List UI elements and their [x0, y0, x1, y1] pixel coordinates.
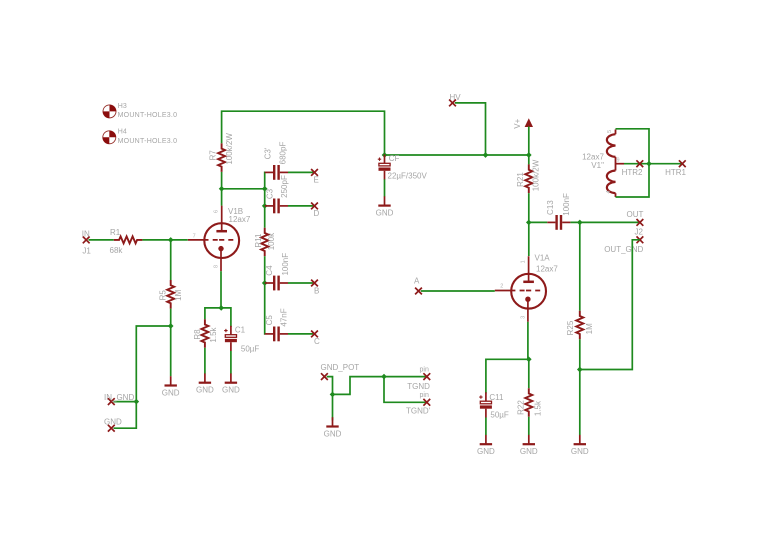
node grid V1B — [168, 237, 174, 243]
wire HV to rail — [455, 103, 486, 155]
ground under R25 — [571, 435, 589, 456]
wire C13 to OUT — [570, 221, 640, 223]
svg-text:H3: H3 — [118, 103, 127, 110]
wire C4 to B — [288, 282, 315, 284]
pin OUT J2 — [627, 210, 644, 236]
svg-text:8: 8 — [214, 265, 220, 268]
node GND_POT — [330, 392, 336, 398]
wire cathode to C1 — [221, 308, 231, 327]
svg-text:100k/2W: 100k/2W — [225, 133, 234, 165]
pin IN_GND — [104, 393, 134, 405]
svg-text:100nF: 100nF — [281, 253, 290, 276]
svg-text:R11: R11 — [254, 233, 263, 248]
svg-text:HTR1: HTR1 — [665, 168, 686, 177]
svg-text:TGND: TGND — [407, 382, 430, 391]
capacitor C5 47nF — [265, 308, 289, 341]
svg-text:MOUNT-HOLE3.0: MOUNT-HOLE3.0 — [118, 112, 178, 119]
svg-text:50µF: 50µF — [241, 345, 260, 354]
svg-text:R25: R25 — [566, 320, 575, 335]
wire node to R7 — [221, 172, 223, 189]
wire R25 branch — [579, 222, 581, 310]
svg-text:V1": V1" — [591, 161, 604, 170]
svg-text:C11: C11 — [489, 393, 504, 402]
svg-text:680pF: 680pF — [278, 142, 287, 165]
svg-text:HV: HV — [450, 93, 462, 102]
capacitor C4 100nF — [265, 253, 290, 291]
wire V1B plate to node — [221, 189, 223, 206]
wire CF to ground — [384, 179, 386, 196]
node plate V1A — [526, 220, 532, 226]
ground under GND_POT — [324, 417, 342, 438]
svg-text:12ax7: 12ax7 — [536, 264, 558, 273]
svg-text:C4: C4 — [265, 265, 274, 276]
node plate V1B — [219, 186, 225, 192]
capacitor C13 100nF — [546, 193, 571, 230]
node CF tap — [382, 152, 388, 158]
node R5 bottom — [168, 323, 174, 329]
svg-text:100nF: 100nF — [562, 193, 571, 216]
svg-text:OUT: OUT — [627, 210, 644, 219]
svg-text:D: D — [314, 209, 320, 218]
svg-text:pin: pin — [420, 367, 429, 374]
wire C5 to C — [288, 333, 315, 335]
node OUT tap — [577, 220, 583, 226]
capacitor CF 22uF/350V — [378, 154, 428, 180]
svg-text:B: B — [314, 286, 319, 295]
pin HTR2 — [622, 160, 644, 177]
svg-text:1.5k: 1.5k — [209, 326, 218, 342]
pin TGND — [407, 367, 430, 391]
svg-text:R7: R7 — [208, 150, 217, 161]
node heater join — [646, 161, 652, 167]
wire C3 to D — [288, 205, 315, 207]
wire R1 to grid node — [142, 239, 170, 241]
wire column lower — [264, 256, 266, 334]
svg-text:GND: GND — [104, 417, 122, 426]
svg-text:C5: C5 — [265, 315, 274, 326]
svg-text:C1: C1 — [235, 326, 246, 335]
pin GND_POT — [321, 363, 360, 380]
svg-text:4: 4 — [606, 190, 612, 193]
wire C3' to E — [288, 171, 315, 173]
svg-text:5: 5 — [607, 130, 613, 133]
svg-text:C13: C13 — [546, 200, 555, 215]
wire R5 to ground node — [170, 309, 172, 377]
wire heater loop — [616, 129, 650, 197]
pin C — [311, 331, 320, 346]
wire R25 to ground — [579, 339, 581, 435]
wire node down to R5 — [170, 240, 172, 280]
ground under R5 — [162, 376, 180, 397]
svg-text:100k/2W: 100k/2W — [531, 159, 540, 191]
node cathode V1A — [526, 356, 532, 362]
svg-text:100k: 100k — [267, 232, 276, 250]
wire OUT_GND down — [580, 240, 640, 370]
capacitor C3' 680pF — [263, 142, 288, 180]
ground under CF — [376, 196, 394, 217]
wire A to V1A grid — [421, 290, 495, 292]
capacitor C3 250pF — [265, 175, 289, 213]
wire main HT rail — [385, 154, 529, 156]
svg-text:47nF: 47nF — [280, 308, 289, 326]
svg-text:R1: R1 — [110, 228, 121, 237]
svg-text:1: 1 — [520, 260, 526, 263]
svg-text:9: 9 — [617, 158, 620, 164]
svg-text:C: C — [314, 337, 320, 346]
svg-text:HTR2: HTR2 — [622, 168, 643, 177]
svg-text:V+: V+ — [513, 118, 522, 128]
op amp: triode V1A — [495, 253, 559, 322]
pin TGND' — [406, 392, 431, 415]
node cathode V1B — [218, 305, 224, 311]
wire R8 to ground — [204, 348, 206, 374]
resistor R25 — [566, 311, 594, 340]
node HV tap — [483, 152, 489, 158]
pin OUT_GND — [604, 236, 643, 254]
pin D — [311, 203, 319, 218]
wire cathode to R22 — [528, 359, 530, 388]
mount hole H3 — [103, 103, 177, 119]
svg-text:3: 3 — [520, 316, 526, 319]
resistor R22 — [516, 388, 542, 417]
ground under R22 — [520, 435, 538, 456]
wire cathode to C11 — [486, 359, 529, 393]
svg-text:IN: IN — [82, 229, 90, 238]
svg-text:1M: 1M — [585, 323, 594, 334]
wire R7 top rail — [222, 111, 385, 155]
svg-text:R8: R8 — [193, 329, 202, 340]
capacitor C1 50uF — [224, 326, 259, 354]
svg-text:1M: 1M — [174, 289, 183, 300]
wire column upper — [264, 172, 266, 227]
svg-text:12ax7: 12ax7 — [229, 215, 251, 224]
node C3 tap — [262, 203, 268, 209]
wire C1 to ground — [230, 351, 232, 374]
ground under C1 — [222, 373, 240, 394]
svg-text:CF: CF — [389, 154, 400, 163]
pin B — [311, 280, 319, 296]
svg-text:C3: C3 — [265, 188, 274, 199]
svg-text:pin: pin — [420, 392, 429, 399]
resistor R7 — [208, 133, 234, 172]
svg-text:TGND': TGND' — [406, 407, 431, 416]
svg-text:J2: J2 — [635, 227, 644, 236]
resistor R21 — [516, 159, 540, 193]
svg-text:E: E — [314, 175, 319, 184]
op amp: triode V1B — [188, 206, 251, 272]
wire R21 to plate node — [528, 193, 530, 222]
svg-text:1.5k: 1.5k — [534, 400, 543, 416]
svg-text:22µF/350V: 22µF/350V — [388, 171, 428, 180]
svg-text:R22: R22 — [516, 400, 525, 415]
svg-text:250pF: 250pF — [280, 175, 289, 198]
svg-text:V1A: V1A — [535, 253, 551, 262]
svg-text:2: 2 — [500, 284, 503, 290]
pin E — [311, 169, 319, 184]
svg-text:J1: J1 — [82, 247, 91, 256]
wire rail to R21 — [528, 155, 530, 164]
pin HV — [449, 93, 461, 106]
wire GND_POT net — [327, 377, 427, 421]
svg-text:MOUNT-HOLE3.0: MOUNT-HOLE3.0 — [118, 138, 178, 145]
svg-text:R21: R21 — [516, 172, 525, 187]
wire node to V1A plate — [528, 222, 530, 256]
svg-text:50µF: 50µF — [490, 411, 509, 420]
wire R22 to ground — [528, 417, 530, 435]
supply V+ — [513, 118, 532, 155]
wire plate node to coupling column — [222, 188, 265, 190]
wire V1A cathode — [527, 322, 529, 360]
resistor R11 — [254, 228, 276, 257]
resistor R8 — [193, 319, 218, 348]
wire to IN_GND — [114, 326, 171, 428]
wire IN to R1 — [89, 239, 114, 241]
mount hole H4 — [103, 129, 178, 145]
wire node to V1B pin 7 — [171, 239, 188, 241]
wire C11 to ground — [485, 418, 487, 436]
pin A — [414, 277, 422, 295]
svg-text:C3': C3' — [263, 147, 272, 159]
wire V1B cathode — [220, 271, 222, 308]
wire heater pin9 to HTR1 — [624, 163, 682, 165]
node C4 tap — [262, 280, 268, 286]
wire cathode to R8 — [205, 308, 221, 319]
svg-text:7: 7 — [193, 234, 196, 240]
pin J1 IN — [82, 229, 92, 255]
svg-text:A: A — [414, 277, 420, 286]
node TGND split — [381, 374, 387, 380]
svg-text:OUT_GND: OUT_GND — [604, 245, 643, 254]
junction IN_GND — [133, 399, 139, 405]
svg-text:GND_POT: GND_POT — [321, 363, 360, 372]
wire C13 left lead — [529, 221, 547, 223]
resistor R5 — [159, 280, 183, 309]
pin GND — [104, 417, 122, 431]
svg-text:68k: 68k — [110, 246, 124, 255]
pin HTR1 — [665, 160, 686, 177]
svg-text:6: 6 — [214, 210, 220, 213]
node OUT_GND join — [577, 367, 583, 373]
ground under R8 — [196, 373, 214, 394]
svg-text:R5: R5 — [159, 290, 168, 301]
node column join — [262, 186, 268, 192]
svg-text:H4: H4 — [118, 129, 127, 136]
resistor R1 — [110, 228, 143, 255]
capacitor C11 50uF — [479, 392, 509, 419]
ground under C11 — [477, 435, 495, 456]
heater V1" 12ax7 — [582, 130, 624, 198]
svg-text:IN_GND: IN_GND — [104, 393, 134, 402]
node V+ R21 — [526, 152, 532, 158]
